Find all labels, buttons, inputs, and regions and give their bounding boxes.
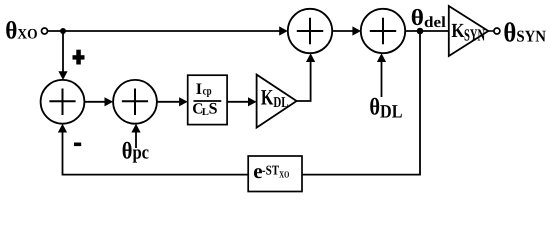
wire: block U1 to amp KDL [227, 101, 248, 103]
arrowhead into S1 top [58, 71, 67, 80]
input label theta_XO [5, 17, 37, 44]
wire: delay block output left then up to S1 (minus input) [63, 132, 249, 175]
svg-text:XO: XO [279, 170, 289, 180]
output label theta_SYN [503, 17, 546, 48]
block U1: Icp/CLS charge pump integrator [188, 75, 227, 124]
label theta_pc [122, 138, 150, 164]
svg-text:K: K [451, 20, 464, 42]
svg-text:cp: cp [203, 86, 212, 98]
svg-text:θSYN: θSYN [503, 17, 546, 48]
wire: S4 to amp KSYN [405, 30, 449, 32]
block U4: delay e^-STxo [248, 156, 302, 192]
arrowhead into S2 left [105, 97, 114, 106]
node theta_del junction dot [417, 28, 424, 35]
arrowhead into S2 bottom [131, 124, 140, 133]
svg-text:I: I [196, 81, 202, 98]
arrowhead into S4 left [352, 26, 361, 35]
label theta_del [411, 5, 447, 31]
wire: theta_DL up into S4 [381, 62, 383, 97]
op-amp U3: gain KSYN triangle [449, 6, 489, 56]
arrowhead into S1 bottom [58, 124, 67, 133]
summing junction S1 [41, 80, 85, 124]
output terminal (open circle) [494, 28, 500, 34]
svg-text:θXO: θXO [5, 17, 37, 44]
wire: KSYN tip to output terminal [488, 30, 494, 32]
summing junction S4 (top second) [361, 9, 405, 53]
label theta_DL [369, 94, 402, 122]
node: branch junction dot on input wire [60, 28, 66, 34]
wire: input terminal to summing junction S3 (top run) [48, 30, 280, 32]
summing junction S3 (top first) [288, 9, 332, 53]
svg-text:θDL: θDL [369, 94, 402, 122]
wire: feedback from theta_del node down and left to delay block [302, 31, 420, 175]
wire: branch down to summing junction S1 [62, 31, 64, 72]
svg-text:θdel: θdel [411, 5, 447, 31]
arrowhead into S3 left [279, 26, 288, 35]
wire: KDL output right then up to S3 [297, 62, 311, 101]
wire: S2 to block U1 [157, 101, 179, 103]
svg-text:-ST: -ST [262, 163, 279, 178]
wire: S3 to S4 [332, 30, 352, 32]
svg-text:SYN: SYN [464, 26, 486, 45]
plus sign label at S1 top input [73, 50, 85, 65]
svg-text:θpc: θpc [122, 138, 150, 164]
arrowhead into amp KDL [248, 97, 257, 106]
arrowhead into S4 bottom [377, 53, 386, 62]
summing junction S2 [113, 80, 157, 124]
svg-text:S: S [209, 100, 218, 117]
arrowhead into S3 bottom [306, 53, 315, 62]
input terminal (open circle) [42, 28, 48, 34]
wire: theta_pc up into S2 [135, 132, 137, 148]
wire: S1 to S2 [84, 101, 104, 103]
minus sign label at S1 feedback input [74, 143, 81, 147]
arrowhead into block U1 [179, 97, 188, 106]
op-amp U2: gain KDL triangle [257, 75, 297, 128]
